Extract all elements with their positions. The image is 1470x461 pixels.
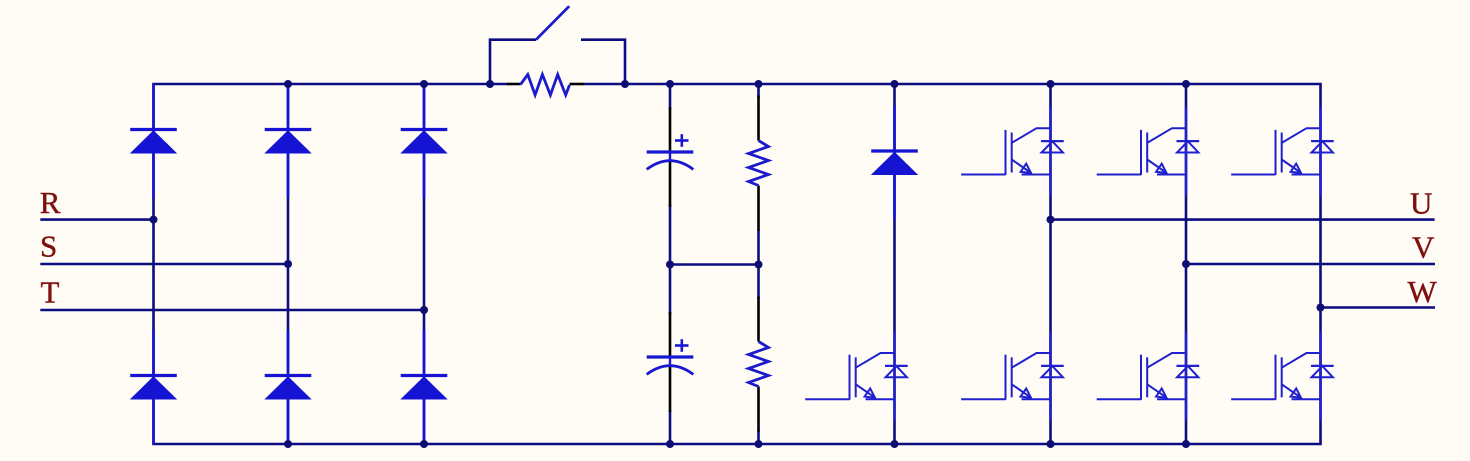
svg-text:W: W bbox=[1408, 274, 1438, 309]
svg-text:V: V bbox=[1412, 230, 1435, 265]
svg-text:U: U bbox=[1410, 186, 1432, 221]
svg-text:S: S bbox=[40, 229, 57, 264]
svg-text:R: R bbox=[40, 185, 61, 220]
svg-text:T: T bbox=[41, 275, 60, 310]
